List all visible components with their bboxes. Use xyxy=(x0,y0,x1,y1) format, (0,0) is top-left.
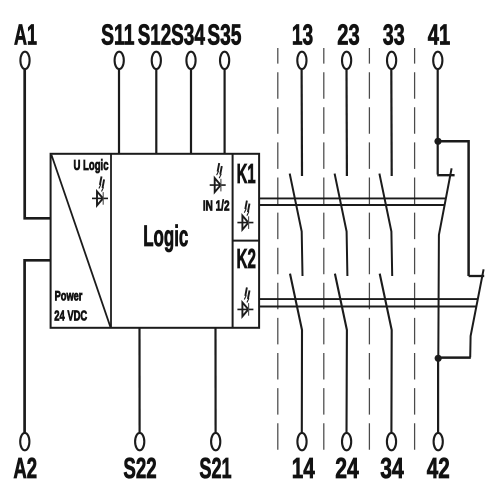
terminal S34 xyxy=(186,52,195,69)
power/logic divider xyxy=(110,154,112,328)
svg-text:U Logic: U Logic xyxy=(74,157,109,173)
terminal S11 xyxy=(115,52,124,69)
terminal 13 xyxy=(297,52,306,69)
wire S12 xyxy=(155,69,157,154)
svg-text:A1: A1 xyxy=(14,19,37,51)
NC contact K1: fixed lead xyxy=(437,141,439,174)
K1 mechanical linkage lines xyxy=(259,198,446,205)
svg-text:S22: S22 xyxy=(123,453,156,485)
LED K1 xyxy=(237,201,253,230)
svg-text:14: 14 xyxy=(292,453,315,485)
svg-text:24: 24 xyxy=(335,453,359,485)
wire 41 down to junction xyxy=(437,66,439,141)
terminal A1 xyxy=(20,52,29,69)
terminal 34 xyxy=(387,433,396,450)
LED K2 xyxy=(237,287,253,316)
svg-text:S21: S21 xyxy=(199,453,231,485)
LED U Logic xyxy=(92,176,108,205)
wire S11 xyxy=(118,69,120,154)
dashed separator 1 xyxy=(277,48,279,450)
svg-text:IN 1/2: IN 1/2 xyxy=(203,197,230,213)
svg-text:34: 34 xyxy=(380,453,404,485)
NC contact K2: blade xyxy=(470,269,483,357)
svg-text:A2: A2 xyxy=(13,453,37,485)
terminal 33 xyxy=(387,52,396,69)
return wire to junction bottom xyxy=(438,356,471,359)
logic/K divider xyxy=(232,154,234,328)
wire A1 to power section xyxy=(25,66,51,218)
terminal S35 xyxy=(220,52,229,69)
wire A2 to power section xyxy=(25,260,51,436)
svg-text:41: 41 xyxy=(428,19,451,51)
svg-text:K1: K1 xyxy=(237,158,256,189)
K1/K2 divider xyxy=(233,240,260,242)
wire S35 xyxy=(224,69,226,154)
svg-text:S34: S34 xyxy=(171,19,205,51)
NC contact K1: blade xyxy=(438,168,451,357)
wire S22 xyxy=(138,328,140,436)
svg-text:S35: S35 xyxy=(207,20,241,52)
wire to terminal 42 xyxy=(437,358,439,436)
terminal 42 xyxy=(434,433,443,450)
junction node top xyxy=(434,138,441,145)
terminal S22 xyxy=(135,433,144,450)
dashed separator 4 xyxy=(414,48,416,450)
svg-text:33: 33 xyxy=(383,20,405,52)
terminal S21 xyxy=(211,433,220,450)
svg-text:23: 23 xyxy=(337,19,359,51)
feed wire to second NC contact xyxy=(438,141,469,276)
svg-text:K2: K2 xyxy=(236,243,255,274)
wire S21 xyxy=(214,328,216,436)
terminal S12 xyxy=(152,52,161,69)
contact 13-14 leads and blades xyxy=(290,66,303,436)
terminal 41 xyxy=(433,52,442,69)
svg-text:Logic: Logic xyxy=(143,220,188,253)
contact 23-24 leads and blades xyxy=(335,66,348,436)
LED IN 1/2 xyxy=(210,163,226,192)
main device box xyxy=(51,154,260,328)
power section diagonal xyxy=(52,155,111,327)
terminal 14 xyxy=(297,433,306,450)
K2 mechanical linkage lines xyxy=(259,299,477,306)
dashed separator 3 xyxy=(368,48,370,450)
NC contact K2: bar xyxy=(469,275,485,277)
svg-text:Power: Power xyxy=(55,289,83,304)
svg-text:42: 42 xyxy=(427,453,450,485)
svg-text:S11: S11 xyxy=(101,20,134,52)
junction node bottom xyxy=(435,355,442,362)
terminal 24 xyxy=(342,433,351,450)
svg-text:24 VDC: 24 VDC xyxy=(54,308,87,325)
svg-text:13: 13 xyxy=(292,20,313,52)
terminal A2 xyxy=(20,433,29,450)
contact 33-34 leads and blades xyxy=(379,66,392,436)
wire S34 xyxy=(190,69,192,154)
NC contact K1: bar xyxy=(437,174,454,176)
terminal 23 xyxy=(342,52,351,69)
dashed separator 2 xyxy=(323,48,325,450)
svg-text:S12: S12 xyxy=(138,19,171,51)
